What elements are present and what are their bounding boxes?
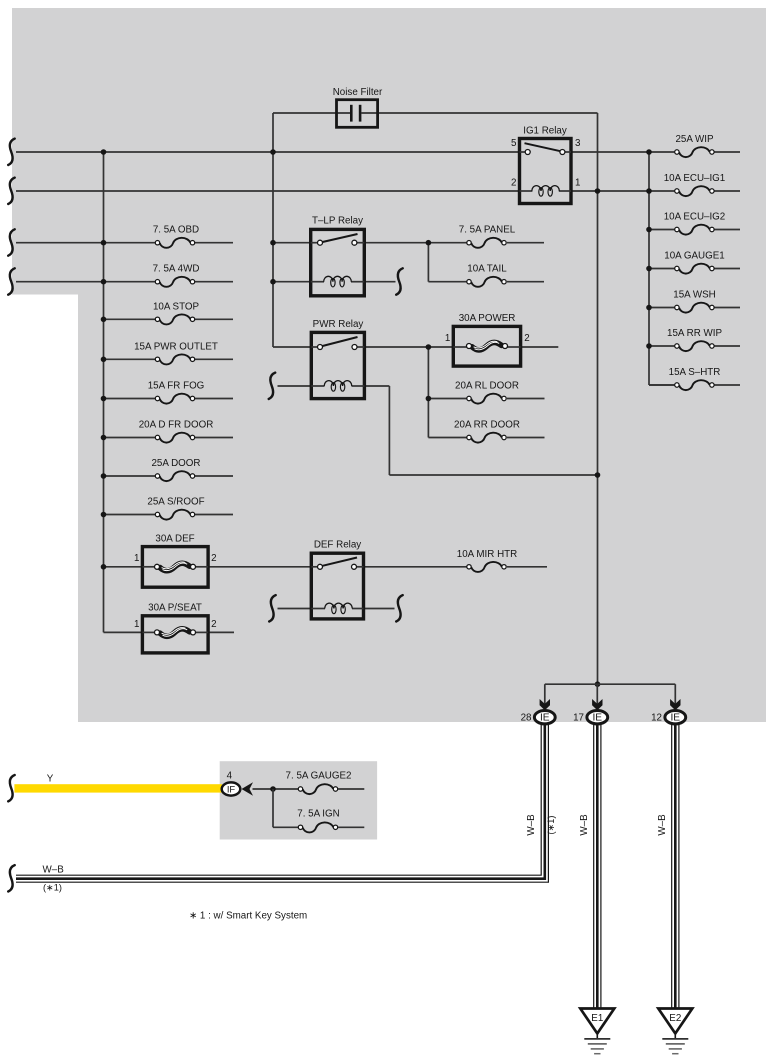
wire row1 bus (left feed to IG1 pin5) [16,151,520,153]
fuse 15A WSH [679,303,710,313]
fuse 10A TAIL [471,277,502,287]
svg-text:30A POWER: 30A POWER [459,313,516,324]
wire MIR HTR fuse output [507,566,547,568]
fuse 7.5A GAUGE2 [303,784,334,794]
svg-text:1: 1 [445,333,450,344]
fuse 15A FR FOG [160,394,191,404]
svg-text:E1: E1 [591,1013,603,1024]
arrow out of IF [242,782,254,795]
wire 10A ECU-IG1 row [649,190,674,192]
junction dot (103.5,152.0) [101,149,107,155]
ground E1 [580,1009,614,1034]
junction dot (273,242.7) [270,240,276,246]
junction dot (597.5,684.2) [595,681,601,687]
svg-text:IE: IE [592,713,602,724]
junction dot (103.5,398.5) [101,396,107,402]
fuse 15A PWR OUTLET [160,354,191,364]
wire stub to IE pin 12 [674,684,676,704]
junction dot (103.5,437.5) [101,435,107,441]
wire 15A FR FOG row [104,398,156,400]
svg-text:2: 2 [211,619,216,630]
junction dot (649,191.0) [646,188,652,194]
wire PANEL fuse output [507,242,544,244]
wire 10A GAUGE1 row [649,268,674,270]
fuse 15A S–HTR [679,380,710,390]
svg-text:10A STOP: 10A STOP [153,301,200,312]
svg-text:2: 2 [524,333,529,344]
svg-text:20A RL DOOR: 20A RL DOOR [455,381,519,392]
svg-text:7. 5A PANEL: 7. 5A PANEL [459,225,516,236]
svg-text:12: 12 [651,713,662,724]
wire 10A STOP row [104,318,156,320]
junction dot (649,346.0) [646,343,652,349]
break symbol PWR coil left [269,373,276,399]
svg-text:∗ 1 : w/ Smart Key System: ∗ 1 : w/ Smart Key System [189,911,307,922]
fuse 30A POWER [453,313,520,366]
wire T-LP switch feed [273,242,311,244]
junction dot (597.5,475) [595,472,601,478]
wire vertical riser x=273 (row1 to noise filter line) [272,113,274,152]
fuse 30A P/SEAT [142,603,208,653]
fuse 7.5A PANEL [471,238,502,248]
fuse 20A D FR DOOR [160,433,191,443]
fuse 20A RL DOOR [471,394,502,404]
wire 15A RR WIP row [649,345,674,347]
capacitor noise filter [337,100,378,128]
svg-text:(∗1): (∗1) [43,883,62,893]
svg-text:E2: E2 [669,1013,681,1024]
wire IF to GAUGE2 node [253,788,299,790]
arrow into IE 12 [670,699,680,710]
break symbol DEF coil left [269,595,276,621]
junction dot (428.4,398.5) [426,396,432,402]
connector IE pin 17 [587,711,608,724]
wire TAIL fuse row [428,281,467,283]
relay PWR Relay [311,319,364,399]
wire 30A POWER output [521,346,559,348]
break symbol T-LP coil right [396,268,403,294]
wire 30A DEF output to DEF relay [208,566,311,568]
junction dot (103.5,281.7) [101,279,107,285]
svg-text:15A RR WIP: 15A RR WIP [667,328,722,339]
main gray panel [12,8,766,722]
arrow into IE 28 [540,699,550,710]
wire left bus corner to 30A P/SEAT [104,631,143,633]
fuse 10A GAUGE1 [679,264,710,274]
wire Y (yellow) [14,784,222,792]
svg-text:20A D FR DOOR: 20A D FR DOOR [139,420,214,431]
wire RR DOOR fuse row [428,437,467,439]
wire right bus corner to S-HTR fuse [649,384,674,386]
svg-text:IG1 Relay: IG1 Relay [523,126,567,137]
junction dot GAUGE2 node [270,786,276,792]
wire PWR coil output right [364,385,389,387]
break symbol Y wire left edge [8,775,15,801]
svg-text:7. 5A GAUGE2: 7. 5A GAUGE2 [286,770,352,781]
wire IG1 pin1 to right bus [571,190,649,192]
wire T-LP switch output to PANEL node [364,242,467,244]
junction dot (103.5,319.3) [101,317,107,323]
svg-text:2: 2 [211,553,216,564]
junction dot (649,307.5) [646,305,652,311]
fuse 25A WIP [679,147,710,157]
junction dot (273,281.7) [270,279,276,285]
svg-text:5: 5 [511,138,517,149]
svg-text:IF: IF [227,783,236,794]
wire left vertical bus x=103.5 [103,152,105,632]
junction dot (103.5,566.8) [101,564,107,570]
svg-text:(∗1): (∗1) [546,816,556,835]
svg-text:28: 28 [521,713,532,724]
wire 7.5A OBD row [16,242,155,244]
break symbol left edge row1 [8,139,15,165]
fuse 25A S/ROOF [160,510,191,520]
svg-text:PWR Relay: PWR Relay [313,319,364,330]
wire IGN row [273,826,298,828]
small gray panel (GAUGE2/IGN block) [220,761,377,839]
svg-text:T–LP Relay: T–LP Relay [312,216,363,227]
svg-text:20A RR DOOR: 20A RR DOOR [454,420,520,431]
svg-text:W–B: W–B [657,814,668,836]
wire 25A S/ROOF row [104,514,156,516]
wire 20A D FR DOOR row [104,437,156,439]
wire vertical x=273 (row1 down to PWR relay) [272,152,274,347]
wire T-LP coil output to break [364,281,395,283]
svg-text:3: 3 [575,138,581,149]
wire vertical PANEL to TAIL [427,243,429,282]
wire vertical to IGN row [272,789,274,827]
svg-text:IE: IE [540,713,550,724]
svg-text:10A ECU–IG2: 10A ECU–IG2 [664,212,726,223]
svg-text:IE: IE [670,713,680,724]
svg-text:15A FR FOG: 15A FR FOG [148,381,205,392]
junction dot (103.5,359.3) [101,357,107,363]
junction dot (428.4,347) [426,344,432,350]
connector IF pin 4 [222,782,241,795]
svg-text:10A GAUGE1: 10A GAUGE1 [664,251,724,262]
fuse 25A DOOR [160,471,191,481]
svg-text:7. 5A IGN: 7. 5A IGN [297,809,339,820]
svg-text:W–B: W–B [43,865,65,876]
wire vertical POWER to RR DOOR [427,347,429,438]
break symbol W-B left edge [8,865,15,891]
svg-text:30A DEF: 30A DEF [155,533,194,544]
wire stub to IE pin 17 [596,684,598,704]
svg-text:15A WSH: 15A WSH [673,290,715,301]
break symbol DEF coil right [396,595,403,621]
wire 25A WIP row [649,151,674,153]
svg-text:1: 1 [575,178,580,189]
fuse 30A DEF [142,533,208,587]
wire 7.5A 4WD row [16,281,155,283]
junction dot (103.5,514.5) [101,512,107,518]
junction dot (273,152.0) [270,149,276,155]
wire 30A DEF feed [104,566,143,568]
wire DEF relay switch output to MIR HTR [364,566,468,568]
wire right vertical bus x=649 [648,152,650,385]
junction dot (597.5,191.0) [595,188,601,194]
wire IE connector bus [545,683,676,685]
ground E2 [658,1009,692,1034]
relay DEF Relay [311,540,363,619]
svg-text:Noise Filter: Noise Filter [333,87,383,98]
fuse 7.5A 4WD [160,277,191,287]
fuse 10A MIR HTR [471,562,502,572]
fuse 10A STOP [160,314,191,324]
wire x=273 corner to PWR relay switch [273,346,311,348]
wire DEF coil right break stub [364,608,395,610]
wire W-B from IE 17 to E1 [593,724,595,1009]
fuse 7.5A OBD [160,238,191,248]
svg-text:10A TAIL: 10A TAIL [467,264,507,275]
wire row2 bus (left feed to IG1 pin2) [16,190,520,192]
svg-text:10A ECU–IG1: 10A ECU–IG1 [664,173,726,184]
svg-text:1: 1 [134,553,139,564]
junction dot (428.4,242.7) [426,240,432,246]
break symbol left edge OBD row [8,229,15,255]
fuse 10A ECU–IG2 [679,225,710,235]
wire noise filter line left segment [273,112,337,114]
svg-text:17: 17 [573,713,584,724]
svg-text:30A P/SEAT: 30A P/SEAT [148,603,202,614]
svg-text:10A MIR HTR: 10A MIR HTR [457,549,517,560]
svg-text:4: 4 [227,770,233,781]
junction dot (649,268.5) [646,266,652,272]
wire T-LP coil feed [273,281,311,283]
svg-text:25A WIP: 25A WIP [675,134,714,145]
wire W-B from IE 28 down and left to edge [16,724,541,875]
connector IE pin 12 [665,711,686,724]
wire W-B from IE 12 to E2 [671,724,673,1009]
wire bottom horizontal to main vertical [389,474,597,476]
wire 25A DOOR row [104,475,156,477]
svg-text:7. 5A OBD: 7. 5A OBD [153,225,199,236]
break symbol left edge row2 [8,178,15,204]
wire PWR switch output to POWER node [364,346,453,348]
junction dot (103.5,476.0) [101,473,107,479]
junction dot (649,229.5) [646,227,652,233]
wire stub to IE pin 28 [544,684,546,704]
svg-text:15A PWR OUTLET: 15A PWR OUTLET [134,341,218,352]
wire vertical PWR coil down [388,386,390,475]
wire noise filter line right segment [378,112,598,114]
arrow into IE 17 [592,699,602,710]
wire IG1 pin3 to right bus [571,151,649,153]
fuse 10A ECU–IG1 [679,186,710,196]
wire RL DOOR fuse row [428,398,467,400]
wire 15A WSH row [649,307,674,309]
fuse 20A RR DOOR [471,433,502,443]
svg-text:1: 1 [134,619,139,630]
break symbol left edge 4WD row [8,268,15,294]
wire 10A ECU-IG2 row [649,229,674,231]
wire 15A S-HTR row [649,384,674,386]
relay T-LP Relay [311,216,365,296]
wire DEF coil left break stub [278,608,312,610]
svg-text:W–B: W–B [579,814,590,836]
junction dot (103.5,242.7) [101,240,107,246]
svg-text:Y: Y [47,774,54,785]
connector IE pin 28 [534,711,555,724]
wire 15A PWR OUTLET row [104,358,156,360]
svg-text:7. 5A 4WD: 7. 5A 4WD [153,264,200,275]
svg-text:W–B: W–B [526,814,537,836]
svg-text:25A DOOR: 25A DOOR [151,458,200,469]
svg-text:DEF Relay: DEF Relay [314,540,361,551]
wire 30A P/SEAT output stub [208,631,234,633]
wire main vertical x=597.5 (top line down to IE bus) [597,113,599,684]
relay IG1 Relay [520,126,572,204]
svg-text:15A S–HTR: 15A S–HTR [669,367,721,378]
junction dot (649,152.0) [646,149,652,155]
fuse 7.5A IGN [303,822,334,832]
fuse 15A RR WIP [679,341,710,351]
svg-text:2: 2 [511,178,516,189]
wire PWR coil left break stub [278,385,312,387]
svg-text:25A S/ROOF: 25A S/ROOF [147,497,204,508]
